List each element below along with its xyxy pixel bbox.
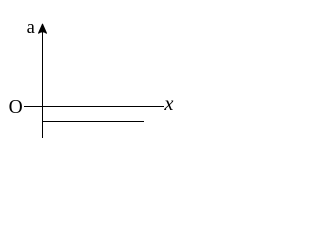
graph line (constant negative a) bbox=[42, 121, 144, 122]
arrowhead at top of a-axis bbox=[39, 24, 47, 33]
x-axis bbox=[24, 106, 164, 107]
svg-text:O: O bbox=[9, 97, 23, 118]
svg-text:a: a bbox=[27, 18, 35, 38]
svg-text:x: x bbox=[163, 93, 173, 115]
vertical axis a (shaft) bbox=[42, 27, 43, 138]
